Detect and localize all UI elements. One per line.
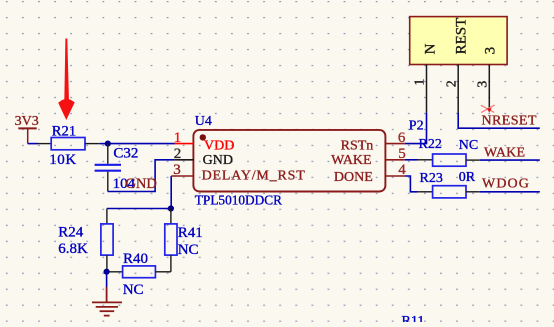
wire P2 pin 2 to NRESET (458, 113, 540, 128)
wire R22 to WAKE (466, 159, 480, 161)
svg-text:P2: P2 (409, 118, 424, 133)
U4 pin 6 RSTn (341, 130, 406, 154)
svg-text:N: N (423, 43, 439, 54)
svg-text:DONE: DONE (334, 170, 373, 185)
svg-text:WAKE: WAKE (484, 146, 525, 161)
svg-text:VDD: VDD (204, 139, 234, 154)
svg-text:NC: NC (123, 282, 144, 298)
junction node at R21/C32 (105, 141, 111, 147)
svg-text:TPL5010DDCR: TPL5010DDCR (195, 192, 282, 207)
resistor R23 0R (420, 170, 476, 198)
svg-text:NC: NC (178, 242, 199, 258)
resistor R22 NC (419, 137, 479, 166)
wire junction to U4 pin 1 (108, 143, 175, 145)
wire R23 to WDOG (466, 191, 480, 193)
wire R21 to junction (85, 143, 100, 145)
wire lower horizontal R24 to R41 (107, 208, 171, 210)
resistor R21 10K (49, 124, 85, 169)
svg-text:DELAY/M_RST: DELAY/M_RST (202, 168, 306, 183)
svg-text:6: 6 (398, 130, 406, 146)
wire U4 pin5 to R22 (405, 159, 418, 161)
svg-text:0R: 0R (459, 170, 476, 185)
wire U4 pin 6 up to P2 pin 1 (405, 113, 427, 144)
svg-text:NRESET: NRESET (482, 114, 537, 129)
svg-text:WDOG: WDOG (482, 177, 530, 192)
U4 pin 2 GND (174, 146, 233, 168)
svg-text:3: 3 (476, 81, 491, 88)
resistor R40 NC (107, 251, 171, 298)
svg-text:RSTn: RSTn (341, 139, 374, 154)
capacitor C32 104 (95, 144, 139, 192)
power port 3V3 (15, 114, 39, 143)
wire junction to ground (106, 272, 108, 288)
svg-text:R21: R21 (52, 124, 76, 140)
svg-text:NC: NC (459, 138, 478, 153)
svg-text:C32: C32 (113, 146, 138, 162)
no-ERC marker on P2 pin 3 (481, 105, 495, 113)
svg-text:R41: R41 (178, 225, 203, 241)
svg-text:R23: R23 (420, 171, 443, 186)
svg-text:10K: 10K (49, 152, 77, 168)
connector P2 (409, 17, 507, 134)
svg-text:GND: GND (125, 176, 156, 192)
junction node at R24 bottom (104, 269, 110, 275)
ground (92, 287, 122, 316)
wire U4 pin4 to R23 (405, 176, 418, 192)
U4 pin 3 DELAY/M_RST (171, 162, 305, 184)
svg-text:3: 3 (482, 47, 498, 55)
svg-text:5: 5 (398, 146, 406, 162)
P2 pin 1 (413, 65, 428, 114)
svg-text:3V3: 3V3 (15, 114, 39, 129)
wire 3V3 to R21 (28, 143, 38, 145)
svg-text:2: 2 (174, 146, 182, 162)
svg-text:2: 2 (444, 80, 459, 87)
svg-text:R40: R40 (123, 251, 148, 267)
U4 pin 5 WAKE (331, 146, 406, 168)
svg-text:R22: R22 (419, 137, 442, 152)
U4 pin 4 DONE (334, 162, 406, 185)
svg-text:1: 1 (174, 130, 182, 146)
annotation red arrow (58, 39, 74, 121)
junction node lower (168, 205, 174, 211)
svg-text:R11: R11 (402, 314, 425, 322)
svg-text:R24: R24 (58, 225, 84, 241)
svg-text:GND: GND (203, 153, 233, 168)
resistor R41 NC (165, 209, 203, 272)
wire U4 pin 3 down to junction (170, 176, 172, 209)
svg-text:U4: U4 (195, 114, 212, 129)
U4 pin 1 VDD (174, 130, 235, 154)
wire U4 pin 2 to C32 bottom (GND net) (108, 160, 175, 192)
P2 pin 3 (476, 65, 491, 111)
P2 pin 2 (444, 65, 459, 114)
svg-text:WAKE: WAKE (331, 153, 371, 168)
svg-text:6.8K: 6.8K (58, 241, 88, 257)
svg-text:3: 3 (173, 162, 181, 178)
IC U4 TPL5010DDCR body (193, 114, 385, 207)
svg-text:1: 1 (413, 79, 428, 86)
resistor R24 6.8K (58, 209, 113, 272)
svg-text:REST: REST (454, 18, 470, 55)
